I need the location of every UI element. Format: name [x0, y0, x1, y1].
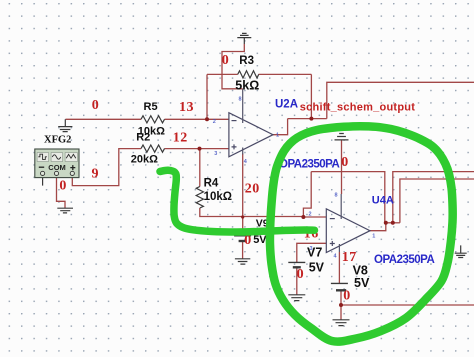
wire ground G1 to R5 (net 0): [66, 118, 142, 120]
wire rail B to right edge: [393, 172, 474, 223]
battery V9: [234, 235, 251, 237]
node output U2A junction: [309, 117, 313, 121]
svg-text:0: 0: [59, 178, 67, 193]
wire R3 left row: [207, 73, 238, 75]
node U4A out junction 1: [384, 221, 388, 225]
op-amp U4A supply stubs: [339, 194, 341, 252]
svg-text:schift_schem_output: schift_schem_output: [300, 102, 415, 114]
node 12 junction: [198, 147, 202, 151]
wire V9 minus down to ground: [242, 241, 244, 259]
svg-text:R2: R2: [136, 132, 150, 144]
svg-text:2: 2: [309, 212, 312, 218]
wire R2 to U2A non-inverting input (net 12): [165, 148, 229, 150]
wire rail A output feedback top: [311, 172, 385, 223]
svg-text:COM: COM: [48, 163, 66, 172]
svg-text:0: 0: [92, 98, 100, 113]
op-amp U4A plus glyph: [330, 241, 335, 246]
svg-text:5kΩ: 5kΩ: [235, 79, 259, 93]
op-amp U2A triangle: [229, 113, 273, 157]
ground XFG2 COM: [57, 208, 73, 213]
svg-text:R4: R4: [204, 178, 219, 190]
wire U4A V- pin to V8 (net 17): [338, 252, 340, 283]
green marker squiggle: [160, 170, 315, 232]
svg-text:3: 3: [214, 151, 217, 157]
node 13 junction: [205, 117, 209, 121]
svg-text:OPA2350PA: OPA2350PA: [279, 159, 339, 171]
svg-text:20kΩ: 20kΩ: [131, 154, 158, 166]
svg-text:13: 13: [179, 100, 194, 115]
wire U2A V- pin down to V9 (net 20): [242, 154, 244, 236]
resistor R5 10k: [141, 116, 164, 123]
battery V8: [331, 282, 348, 284]
svg-text:5V: 5V: [253, 234, 267, 246]
wire R3 right row to feedback corner: [259, 73, 312, 75]
wire U4A inverting input: [303, 216, 326, 218]
svg-text:R3: R3: [239, 55, 254, 67]
svg-text:2: 2: [213, 119, 216, 125]
op-amp U4A triangle: [326, 209, 370, 253]
wire R3 left lead vertical to net 13: [206, 74, 208, 119]
wire output node row: [288, 118, 327, 120]
op-amp U4A minus glyph: [330, 218, 335, 220]
wire rail C to right edge: [400, 179, 474, 223]
battery V7: [288, 261, 305, 263]
resistor R2 20k: [141, 145, 164, 152]
svg-text:8: 8: [335, 193, 338, 199]
svg-text:U4A: U4A: [372, 195, 394, 207]
svg-text:5V: 5V: [309, 261, 325, 275]
svg-text:OPA2350PA: OPA2350PA: [374, 254, 434, 266]
svg-text:0: 0: [297, 267, 305, 282]
svg-text:1: 1: [276, 133, 279, 139]
wire U4A output lead: [370, 223, 386, 231]
svg-text:5V: 5V: [354, 276, 370, 290]
node V8 bottom junction: [339, 303, 343, 307]
green marker ellipse around U4A stage: [270, 126, 453, 341]
svg-text:U2A: U2A: [275, 99, 298, 111]
wire U4A feedback from output rail: [303, 172, 311, 217]
op-amp U2A minus glyph: [232, 120, 237, 122]
XFG2 minus terminal stub: [42, 176, 44, 186]
wire V7 minus down to ground: [296, 267, 298, 294]
node U4A out junction 2: [391, 221, 395, 225]
svg-text:XFG2: XFG2: [44, 135, 71, 146]
svg-text:20: 20: [245, 181, 260, 196]
svg-text:8: 8: [239, 97, 242, 103]
ground V7: [288, 295, 305, 301]
svg-text:10kΩ: 10kΩ: [204, 191, 232, 203]
ground V9: [235, 259, 250, 264]
svg-text:0: 0: [222, 53, 230, 68]
resistor R4 10k vertical: [196, 187, 203, 209]
wire ground G2 to U2A V+ pin: [222, 44, 244, 89]
wire feedback vertical into output node: [310, 74, 312, 118]
svg-text:12: 12: [173, 130, 188, 145]
svg-text:0: 0: [341, 155, 349, 170]
wire rail D V8 bottom to right edge: [341, 304, 474, 306]
svg-text:17: 17: [342, 250, 357, 265]
wire U4A ground above (net 0): [341, 140, 343, 194]
svg-text:3: 3: [310, 246, 313, 252]
instrument XFG2 function generator: [35, 149, 79, 178]
node 16 junction U4A minus: [301, 215, 305, 219]
svg-text:0: 0: [343, 289, 351, 304]
op-amp U2A plus glyph: [232, 144, 237, 149]
wire R4 bottom to U4A inverting node (net 16): [200, 208, 304, 217]
ground G1 below R5 left: [58, 119, 72, 131]
ground G2 top (above U2A) flipped: [237, 33, 251, 44]
wire V8 minus to ground and rail D: [340, 290, 342, 319]
wire U2A output lead: [273, 119, 288, 135]
wire XFG2 + output to R2 (net 9): [72, 149, 141, 186]
svg-text:9: 9: [92, 167, 100, 182]
wire schift_schem_output net going up and right: [327, 82, 474, 118]
wire R5 to U2A inverting input (net 13): [165, 118, 229, 120]
wire U4A + input to V7 (net 16): [297, 243, 327, 262]
wire XFG2 COM to ground (net 0): [57, 176, 66, 209]
svg-text:1: 1: [372, 234, 375, 240]
wire node 12 down to R4: [199, 149, 201, 187]
resistor R3 5k: [238, 71, 259, 78]
ground V8: [333, 320, 350, 326]
pin numbers U4A: [309, 193, 376, 260]
wire output node horizontal: [386, 222, 400, 224]
ground U4A top flipped: [335, 134, 349, 140]
op-amp U2A supply stubs: [242, 89, 244, 155]
ground right side: [455, 245, 467, 257]
svg-text:R5: R5: [144, 101, 158, 113]
node V9 crossing junction: [241, 215, 244, 218]
pin numbers U2A: [213, 97, 279, 166]
